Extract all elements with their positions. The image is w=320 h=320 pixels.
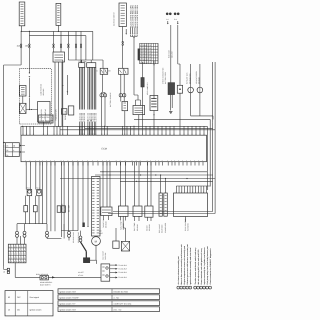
svg-text:19: 19 (56, 133, 58, 135)
svg-text:19: 19 (199, 133, 201, 135)
battery source text lines (40, 281, 52, 287)
svg-text:SS OFF: SS OFF (78, 271, 84, 274)
cam sensor inner box (20, 86, 26, 97)
svg-text:5: 5 (190, 287, 191, 290)
svg-text:SENSOR: SENSOR (122, 222, 125, 230)
svg-text:No.1: No.1 (27, 186, 30, 189)
ECCS relay box bottom centre (101, 264, 110, 281)
wire B1 down to fuse5 (122, 27, 124, 42)
wire with check arrow (62, 60, 64, 126)
fuse 10A #1 (20, 44, 22, 48)
small diode box (177, 85, 182, 93)
svg-text:3 8 2 9 4 7 5 1: 3 8 2 9 4 7 5 1 (140, 56, 151, 59)
feed wires into unit box pins (176, 186, 210, 190)
relay feed wire (68, 59, 103, 61)
svg-text:19: 19 (43, 133, 45, 135)
svg-text:19: 19 (183, 133, 185, 135)
wire fuse holder to body ground (170, 95, 172, 111)
svg-text:4: 4 (187, 287, 188, 290)
wire diode box to bus (179, 93, 181, 126)
supply bus wire 1 (21, 30, 93, 32)
junction dots on supply bus (21, 31, 22, 32)
svg-text:9: 9 (14, 253, 15, 256)
ignition coil box (38, 102, 50, 123)
ground connector GC4 (double circle) (68, 231, 71, 237)
wire cam sensor to condenser (22, 96, 24, 103)
body ground connector (box with circles) (40, 276, 48, 280)
fuse 10A #2 (29, 44, 31, 48)
svg-text:9: 9 (9, 253, 10, 256)
ignition switch feed box (53, 48, 65, 62)
knock sensor label (vertical) (145, 223, 151, 231)
fuel temp label (vertical) (120, 221, 126, 230)
harness band junction dots (102, 171, 187, 182)
svg-text:19: 19 (59, 133, 61, 135)
supply bus wire 2 (29, 31, 86, 35)
svg-text:B: B (97, 70, 98, 73)
centre wires ECM down to connectors (61, 162, 88, 237)
resistor module arrows into ECM (20, 145, 25, 153)
FICD solenoid (solid box) (83, 258, 89, 263)
injector No.2 (37, 190, 42, 196)
wire coil to ECM bus (43, 122, 45, 126)
svg-text:9: 9 (9, 256, 10, 259)
fuse 10A #3 (53, 44, 55, 48)
svg-text:HEAD LAMP RLY: HEAD LAMP RLY (146, 81, 149, 95)
svg-text:3: 3 (184, 287, 185, 290)
svg-text:ENGINE NO RUN: ENGINE NO RUN (114, 290, 129, 293)
throttle sensor box (101, 207, 112, 216)
svg-text:19: 19 (169, 133, 171, 135)
svg-text:9: 9 (11, 249, 12, 252)
wire check unit to bus (138, 115, 140, 127)
ignition switch condition row 4 (58, 307, 160, 312)
svg-text:19: 19 (191, 133, 193, 135)
svg-text:9: 9 (9, 260, 10, 263)
svg-text:2: 2 (210, 287, 211, 290)
svg-text:SENSOR: SENSOR (136, 223, 139, 231)
svg-text:Ignition switch “ON”: Ignition switch “ON” (60, 290, 77, 293)
page connector symbol B (paired circles) (174, 13, 180, 25)
svg-text:THROTTLE: THROTTLE (102, 220, 105, 228)
svg-text:SENSOR: SENSOR (42, 88, 45, 96)
svg-text:RESISTOR: RESISTOR (64, 110, 67, 120)
connector box below U3 (122, 102, 128, 111)
svg-text:19: 19 (145, 133, 147, 135)
vertical label columns top right (162, 67, 168, 84)
right riser wire 2 (212, 62, 214, 212)
svg-text:19: 19 (149, 133, 151, 135)
wires fuse6/7 to relay feed line (76, 48, 81, 63)
svg-text:G B W R SB: G B W R SB (78, 113, 81, 122)
fuse 10A #5 (122, 42, 124, 46)
svg-text:START/OFF (TO IGN): START/OFF (TO IGN) (114, 302, 132, 305)
ignition switch B1 (third tall box) (119, 3, 126, 27)
svg-text:19: 19 (104, 133, 106, 135)
svg-text:1: 1 (207, 287, 208, 290)
svg-text:IAA: IAA (99, 230, 103, 233)
fuse 10A #4 (60, 44, 62, 48)
wire fuse5 down to relay U3 (122, 45, 124, 68)
harness band wire 1 below ECM (100, 171, 207, 173)
svg-text:28: 28 (6, 149, 8, 152)
svg-text:CAM POSITION: CAM POSITION (39, 83, 42, 95)
wires ECM to knock sensor (148, 162, 152, 206)
fuse holder (filled) (168, 83, 175, 95)
fusible link F2 (second tall box) (56, 3, 61, 25)
svg-text:19: 19 (47, 133, 49, 135)
svg-text:FICD SOL: FICD SOL (104, 252, 107, 259)
resistor module block (6, 143, 20, 157)
svg-text:Power transistor unit with ign: Power transistor unit with ignition coil… (200, 248, 203, 284)
svg-text:19: 19 (187, 133, 189, 135)
svg-text:BATTERY SOURCE: BATTERY SOURCE (109, 93, 112, 107)
unit box labels below (vertical) (184, 218, 190, 231)
svg-text:3 8 2 9 4 7 5 1: 3 8 2 9 4 7 5 1 (140, 58, 151, 61)
svg-text:FUEL TEMP: FUEL TEMP (120, 221, 123, 230)
body ground symbol (169, 111, 172, 113)
module tap on left rail (3, 142, 6, 144)
svg-text:19: 19 (157, 133, 159, 135)
wire bus to fuse drop 1 (20, 31, 22, 44)
small box pair left of connector strip (57, 206, 65, 213)
svg-text:19: 19 (62, 133, 64, 135)
wire bus to fuse drops 3-7 (54, 31, 82, 44)
connector double circle left of motor (79, 231, 82, 242)
svg-text:DROPPING RES: DROPPING RES (3, 145, 6, 157)
ignition switch condition row 3 (58, 301, 160, 306)
svg-text:ECM: ECM (102, 147, 107, 150)
wire connector box to bus (124, 111, 126, 127)
injector No.1 (27, 190, 32, 196)
svg-text:TO A/C RLY: TO A/C RLY (118, 276, 128, 279)
svg-text:19: 19 (33, 133, 35, 135)
svg-text:KNOCK: KNOCK (145, 224, 148, 231)
svg-text:CHECK CONNECTOR: CHECK CONNECTOR (162, 67, 165, 84)
wire bus to fuse drop 2 (28, 36, 30, 44)
svg-text:9: 9 (11, 253, 12, 256)
svg-text:19: 19 (130, 133, 132, 135)
ignition switch condition row 1 (58, 289, 160, 294)
merged wire down to junction (133, 38, 135, 96)
page connector symbol A (paired circles) (166, 13, 172, 25)
svg-text:3 8 2 9 4 7 5 1: 3 8 2 9 4 7 5 1 (140, 47, 151, 50)
svg-text:9: 9 (9, 249, 10, 252)
ground connector GC2 (double circle) (23, 231, 26, 237)
svg-text:TO A/C RLY: TO A/C RLY (118, 268, 128, 271)
svg-text:A 2: A 2 (166, 18, 168, 21)
left group wires ECM down to injectors (26, 162, 40, 190)
svg-text:19: 19 (53, 133, 55, 135)
svg-text:Check connector for CONSULT di: Check connector for CONSULT diagnostics (209, 248, 212, 284)
svg-text:8: 8 (201, 287, 202, 290)
wires into diode box from arrow B (178, 25, 180, 85)
svg-text:IGNITION SWITCH: IGNITION SWITCH (113, 11, 116, 26)
svg-text:Injector assembly No.1 cylinde: Injector assembly No.1 cylinder and harn… (203, 247, 206, 284)
relay U3 output connector circles (119, 74, 126, 101)
svg-text:19: 19 (22, 133, 24, 135)
svg-text:Engine temperature sensor unit: Engine temperature sensor unit assembly … (183, 245, 186, 284)
left ground rail wire (3, 65, 5, 266)
wires from labels merging to node (130, 28, 138, 39)
dark fuse box on wire from pin table (141, 62, 144, 126)
svg-text:7: 7 (198, 287, 199, 290)
svg-text:19: 19 (106, 133, 108, 135)
ribbon wire labels (vertical text columns) (78, 113, 97, 122)
svg-text:M: M (95, 241, 98, 244)
EGI relay U2 (97, 68, 112, 74)
svg-text:W/R FUSE: W/R FUSE (167, 50, 170, 58)
legend numbered notes (vertical text with circled numbers) (177, 244, 212, 290)
svg-text:9: 9 (11, 260, 12, 263)
fusible link F1 (top-left tall box) (19, 2, 25, 26)
svg-text:18: 18 (6, 144, 8, 147)
ECM harness connector strip (tall ticked box) (92, 177, 101, 237)
svg-text:19: 19 (142, 133, 144, 135)
svg-text:Ignition switch “START”: Ignition switch “START” (60, 296, 80, 299)
ECM bottom pin numbers and ticks (25, 160, 203, 166)
connector pin table block (dense grid) (138, 43, 158, 64)
main harness bus wire 2 above ECM (85, 127, 213, 129)
sensor circle S2 (197, 64, 203, 116)
ECM label box (39, 115, 54, 123)
fuse 10A #5b (68, 44, 70, 48)
svg-text:19: 19 (203, 133, 205, 135)
svg-text:BR: BR (108, 70, 111, 73)
svg-text:45: 45 (8, 309, 10, 312)
ground connector GC3 (double circle) (46, 224, 49, 237)
svg-text:AT 13S: AT 13S (78, 274, 83, 277)
wire ground connector to ECCS relay with arrow (48, 276, 101, 278)
svg-text:ECCS CONTROL: ECCS CONTROL (184, 218, 187, 231)
svg-text:58: 58 (6, 154, 8, 157)
wire from F2 to supply bus (57, 25, 59, 31)
bus junction dots (22, 126, 23, 127)
relay output arrows with labels (110, 264, 128, 279)
wire motor down to relay (95, 245, 97, 260)
svg-text:TO A/C RLY: TO A/C RLY (118, 271, 128, 274)
wire ECM to V1 (165, 179, 167, 194)
svg-text:6: 6 (195, 287, 196, 290)
small box next to crossed box (113, 241, 119, 248)
wire check connector down to second bus (153, 111, 155, 129)
svg-text:19: 19 (29, 133, 31, 135)
svg-text:BATTERY: BATTERY (67, 204, 70, 212)
wires ECM to fuel temp sensor (121, 162, 126, 206)
resistor label (vertical) and wire with arrow (64, 75, 68, 120)
wire relay feed to U2 (102, 60, 104, 68)
ignition check unit box (133, 106, 145, 115)
wire joining fuse1 to left rail (4, 64, 22, 66)
wire from merge to check unit (134, 94, 138, 96)
wire from F1 to supply bus (20, 26, 22, 32)
svg-text:EXHAUST GAS: EXHAUST GAS (186, 73, 189, 84)
wires into connector face (17, 236, 25, 244)
svg-text:Exhaust gas sensor with harnes: Exhaust gas sensor with harness connecto… (186, 244, 189, 285)
svg-text:4: 4 (13, 149, 14, 152)
unit box top pin ticks and numbers (176, 186, 207, 193)
svg-text:EGR VALVE: EGR VALVE (158, 224, 161, 233)
svg-text:1: 1 (178, 287, 179, 290)
svg-text:AAC VALVE: AAC VALVE (101, 251, 104, 260)
svg-text:19: 19 (133, 133, 135, 135)
svg-text:ECM (ECCS: ECM (ECCS (39, 116, 50, 119)
wires to ignition check unit (135, 100, 137, 106)
IAA unit label above motor (99, 230, 103, 236)
svg-text:BODY EARTH: BODY EARTH (40, 284, 51, 287)
idle air adjusting unit motor (circle) (92, 237, 101, 246)
svg-text:Air cleaner element assembly p: Air cleaner element assembly part (177, 256, 180, 285)
wires distributor right side down to ECM bus (54, 62, 56, 126)
svg-text:ON: ON (17, 309, 20, 312)
svg-text:B 4: B 4 (174, 18, 177, 21)
harness band wire 2 below ECM (95, 174, 213, 176)
condition table (bottom left) (5, 291, 53, 316)
stub wires from relay feed to connector blocks (81, 60, 83, 63)
wire arrowA down to fuse holder (170, 25, 172, 83)
wire fuse1 down to left-rail junction (20, 48, 22, 65)
distributor assembly box (dashed outline) (19, 69, 51, 124)
wires ECM to engine temp sensor (135, 162, 140, 206)
svg-text:19: 19 (26, 133, 28, 135)
svg-text:VEHICLE SPEED: VEHICLE SPEED (195, 70, 198, 84)
wire fuse2 into distributor (28, 48, 30, 73)
svg-text:9: 9 (11, 256, 12, 259)
svg-text:3 8 2 9 4 7 5 1: 3 8 2 9 4 7 5 1 (140, 53, 151, 56)
wire junction to ignition coil (26, 109, 38, 110)
junction dot inside distributor (29, 72, 30, 73)
wire ECM to V2 (160, 175, 162, 193)
injector resistor No.1 (24, 196, 28, 212)
svg-text:19: 19 (173, 133, 175, 135)
knock sensor box (145, 206, 153, 217)
svg-text:SENSOR: SENSOR (105, 220, 108, 228)
wires ECM to throttle sensor (103, 162, 110, 207)
ECM (ECCS control module) main box (21, 135, 207, 162)
bus corner into ECM top left (20, 126, 22, 135)
svg-text:ENG TEMP: ENG TEMP (133, 223, 136, 231)
svg-text:19: 19 (126, 133, 128, 135)
svg-text:A - NO: A - NO (114, 296, 120, 299)
svg-text:CONT MODULE): CONT MODULE) (39, 120, 53, 123)
svg-text:Idle air adjusting AAC valve u: Idle air adjusting AAC valve unit and FI… (197, 249, 200, 285)
leader wire from pin table with arrow (153, 61, 155, 100)
main harness bus wire 1 above ECM (21, 125, 207, 127)
svg-text:Throttle sensor and throttle s: Throttle sensor and throttle switch unit… (194, 248, 197, 285)
svg-text:19: 19 (165, 133, 167, 135)
wire labels right of B1 (vertical text) (129, 5, 139, 28)
svg-text:Start signal: Start signal (30, 296, 40, 299)
svg-text:19: 19 (67, 133, 69, 135)
small vertical box V2 (EGR solenoid) (159, 193, 162, 216)
ECM top pin numbers (22, 133, 205, 135)
wires below injectors to ground bus (17, 162, 55, 232)
connector block CB1 (79, 63, 85, 68)
wire ribbon from connector blocks down to labels (80, 67, 96, 109)
injector resistor No.2 (33, 196, 37, 212)
ground connector GC1 (double circle) (16, 231, 19, 237)
svg-text:SENSOR GND: SENSOR GND (72, 231, 75, 243)
svg-text:Mass air flow sensor assembly: Mass air flow sensor assembly and harnes… (180, 244, 183, 285)
svg-text:3 8 2 9 4 7 5 1: 3 8 2 9 4 7 5 1 (140, 44, 151, 47)
svg-text:9: 9 (9, 245, 10, 248)
harness band wire 3 below ECM (60, 178, 215, 180)
svg-text:19: 19 (95, 133, 97, 135)
riser wires joining bottom area (108, 212, 215, 214)
right riser wire 4 (60, 62, 215, 214)
svg-text:Fuel pump relay circuit and bo: Fuel pump relay circuit and body harness… (206, 246, 209, 285)
ECM top pin ticks (23, 126, 204, 135)
svg-text:19: 19 (153, 133, 155, 135)
wire FICD to ECCS relay (90, 260, 97, 264)
svg-text:Ignition distributor assembly: Ignition distributor assembly and rotor … (189, 248, 192, 285)
sensor labels above circles (vertical) (186, 70, 201, 84)
svg-text:63: 63 (8, 296, 10, 299)
svg-text:No.2: No.2 (37, 186, 40, 189)
engine temperature sensor box (133, 206, 142, 216)
svg-text:19: 19 (138, 133, 140, 135)
svg-text:19: 19 (84, 133, 86, 135)
wire fuse5b to relay feed line (67, 48, 69, 60)
small terminal squares below-left (3, 266, 9, 274)
ignition switch condition row 2 (58, 295, 160, 300)
stub wires below sensor boxes (104, 216, 152, 222)
small vertical box V1 (condenser) (164, 193, 168, 216)
camshaft position sensor arrow (29, 76, 31, 77)
fuse 10A #7 (80, 44, 82, 48)
svg-text:TO A/C RLY: TO A/C RLY (118, 264, 128, 267)
right riser wire 1 (134, 119, 210, 186)
svg-text:38: 38 (13, 144, 15, 147)
bottom-right unit box (large) (174, 193, 208, 217)
svg-text:MAIN HARNESS: MAIN HARNESS (40, 281, 52, 284)
svg-text:Ignition switch “ST”: Ignition switch “ST” (60, 302, 76, 305)
relay U2 output connector circles (100, 74, 107, 126)
small module boxes left of ribbon (61, 109, 67, 115)
svg-text:SENSOR: SENSOR (148, 223, 151, 231)
engine temp label (vertical) (133, 223, 139, 231)
wire bus corner down to connector blocks (86, 31, 93, 60)
throttle sensor label (vertical) (102, 220, 108, 228)
svg-text:19: 19 (179, 133, 181, 135)
wire below unit box (184, 217, 186, 223)
crossed connector box bottom centre (116, 228, 130, 251)
svg-text:3 8 2 9 4 7 5 1: 3 8 2 9 4 7 5 1 (140, 50, 151, 53)
svg-text:IGN SW: IGN SW (63, 206, 66, 212)
svg-text:9: 9 (14, 256, 15, 259)
connector block CB2 (87, 63, 96, 68)
fuel temperature sensor box (118, 206, 128, 216)
svg-text:9: 9 (14, 260, 15, 263)
svg-text:19: 19 (161, 133, 163, 135)
svg-text:9: 9 (11, 245, 12, 248)
wire from connector face down to body ground (15, 263, 40, 278)
motor cluster labels (vertical) (101, 251, 107, 260)
wire fuel temp sensor to crossed box (122, 216, 124, 228)
SS OFF label rows (78, 271, 84, 277)
wire down to coil junction (29, 78, 31, 110)
svg-text:9: 9 (204, 287, 205, 290)
svg-text:Ignition switch “ON”: Ignition switch “ON” (60, 308, 77, 311)
svg-text:19: 19 (195, 133, 197, 135)
check connector box (150, 96, 158, 111)
svg-text:Ignition switch: Ignition switch (30, 309, 42, 312)
svg-text:CONDENSER: CONDENSER (164, 222, 167, 233)
ribbon wires continue to ECM top pins (80, 120, 96, 135)
wires motor cluster to bottom connectors (47, 224, 69, 241)
svg-text:2: 2 (181, 287, 182, 290)
ignition relay U3 (119, 68, 129, 74)
